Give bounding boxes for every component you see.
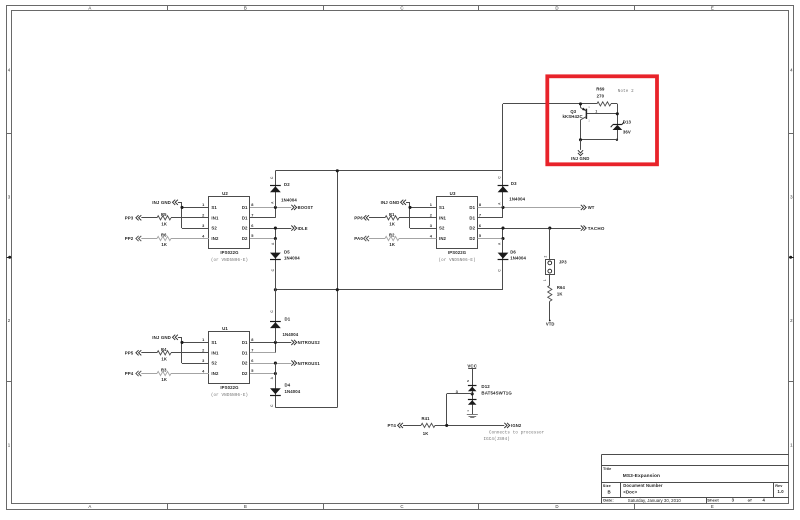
svg-text:R41: R41 <box>421 416 430 421</box>
svg-text:7: 7 <box>479 213 481 218</box>
svg-text:B: B <box>608 490 611 495</box>
svg-text:IGN2: IGN2 <box>511 423 522 428</box>
svg-text:IN1: IN1 <box>211 350 219 355</box>
svg-text:Rev: Rev <box>775 484 783 488</box>
svg-text:(or VND5N06-E): (or VND5N06-E) <box>438 258 475 263</box>
svg-text:S2: S2 <box>211 361 217 366</box>
svg-text:1N4004: 1N4004 <box>281 197 297 202</box>
svg-text:D1: D1 <box>242 215 248 220</box>
svg-text:1K: 1K <box>557 292 563 297</box>
svg-text:IDLE: IDLE <box>298 226 308 231</box>
svg-text:R5: R5 <box>161 212 167 217</box>
svg-text:IN2: IN2 <box>211 371 219 376</box>
svg-text:S2: S2 <box>211 226 217 231</box>
svg-text:Connects to processor: Connects to processor <box>489 431 545 435</box>
svg-text:1K: 1K <box>161 357 167 362</box>
svg-text:1K: 1K <box>389 222 395 227</box>
svg-text:1K: 1K <box>161 242 167 247</box>
svg-text:S1: S1 <box>439 205 445 210</box>
svg-text:IN1: IN1 <box>211 215 219 220</box>
svg-text:IN1: IN1 <box>439 215 447 220</box>
svg-text:of: of <box>748 498 753 503</box>
svg-text:1N4004: 1N4004 <box>509 197 525 202</box>
svg-text:1K: 1K <box>423 431 429 436</box>
svg-text:IN2: IN2 <box>439 236 447 241</box>
svg-text:1N4004: 1N4004 <box>285 389 301 394</box>
svg-text:Date:: Date: <box>603 498 614 503</box>
svg-text:R6: R6 <box>161 233 167 238</box>
svg-text:C: C <box>400 6 403 11</box>
svg-text:PT4: PT4 <box>388 423 397 428</box>
svg-text:IPS022G: IPS022G <box>448 250 467 255</box>
svg-text:R3: R3 <box>161 368 167 373</box>
svg-text:C: C <box>400 504 403 509</box>
svg-text:U3: U3 <box>450 191 456 196</box>
svg-text:Size: Size <box>603 484 611 488</box>
svg-text:D: D <box>555 6 558 11</box>
svg-text:BAT54SWT1G: BAT54SWT1G <box>481 391 512 396</box>
svg-text:A: A <box>88 504 91 509</box>
svg-text:D13: D13 <box>623 119 632 124</box>
svg-text:1N4004: 1N4004 <box>284 256 300 261</box>
svg-text:IN2: IN2 <box>211 236 219 241</box>
svg-text:7: 7 <box>251 348 253 353</box>
svg-text:B: B <box>244 504 247 509</box>
svg-text:(or VND5N06-E): (or VND5N06-E) <box>211 393 248 398</box>
svg-text:PP2: PP2 <box>125 236 134 241</box>
svg-text:1.0: 1.0 <box>778 489 785 494</box>
svg-text:WT: WT <box>588 205 595 210</box>
svg-text:PP4: PP4 <box>125 371 134 376</box>
svg-text:1: 1 <box>595 109 597 113</box>
svg-text:INJ GND: INJ GND <box>152 335 171 340</box>
svg-text:JP3: JP3 <box>559 260 567 265</box>
svg-text:R2: R2 <box>389 233 395 238</box>
svg-text:INJ GND: INJ GND <box>571 156 589 161</box>
svg-text:D4: D4 <box>285 382 291 387</box>
svg-text:D1: D1 <box>242 205 248 210</box>
svg-text:D2: D2 <box>284 182 290 187</box>
svg-text:MS3-Expansion: MS3-Expansion <box>623 473 660 479</box>
svg-text:36V: 36V <box>623 130 631 135</box>
svg-text:270: 270 <box>597 94 605 99</box>
svg-text:A: A <box>88 6 91 11</box>
svg-text:S2: S2 <box>439 226 445 231</box>
svg-text:PP5: PP5 <box>125 351 134 356</box>
svg-text:PP6: PP6 <box>354 216 363 221</box>
svg-text:<Doc>: <Doc> <box>623 490 637 495</box>
svg-text:D2: D2 <box>242 371 248 376</box>
svg-text:VTD: VTD <box>546 321 555 326</box>
svg-text:1: 1 <box>466 410 470 412</box>
svg-text:NITROUS2: NITROUS2 <box>298 340 321 345</box>
svg-text:IGC4(JS04): IGC4(JS04) <box>484 437 510 442</box>
svg-text:INJ GND: INJ GND <box>381 200 400 205</box>
svg-text:D1: D1 <box>242 340 248 345</box>
svg-text:E: E <box>711 504 714 509</box>
svg-text:D2: D2 <box>242 361 248 366</box>
svg-text:1N4004: 1N4004 <box>283 332 299 337</box>
svg-text:D3: D3 <box>511 181 517 186</box>
svg-text:VCC: VCC <box>467 363 477 368</box>
svg-text:E: E <box>711 6 714 11</box>
svg-text:S1: S1 <box>211 205 217 210</box>
svg-text:Title: Title <box>603 467 611 471</box>
svg-text:1: 1 <box>543 279 547 281</box>
svg-text:1N4004: 1N4004 <box>510 256 526 261</box>
svg-text:IPS022G: IPS022G <box>220 385 239 390</box>
svg-text:B: B <box>244 6 247 11</box>
svg-text:R1: R1 <box>389 212 395 217</box>
svg-text:N: N <box>466 380 470 382</box>
svg-text:D12: D12 <box>481 384 490 389</box>
svg-text:U2: U2 <box>222 191 228 196</box>
svg-text:BOOST: BOOST <box>298 205 314 210</box>
svg-text:D1: D1 <box>242 350 248 355</box>
svg-text:PA0: PA0 <box>354 236 363 241</box>
svg-text:D2: D2 <box>242 236 248 241</box>
svg-text:2: 2 <box>544 256 548 258</box>
svg-text:D1: D1 <box>469 205 475 210</box>
svg-text:1K: 1K <box>161 222 167 227</box>
svg-text:7: 7 <box>251 213 253 218</box>
svg-text:Saturday, January 30, 2010: Saturday, January 30, 2010 <box>628 498 682 503</box>
svg-text:D2: D2 <box>242 226 248 231</box>
svg-text:D2: D2 <box>469 236 475 241</box>
svg-text:R69: R69 <box>596 87 605 92</box>
svg-text:D5: D5 <box>284 250 290 255</box>
svg-text:TACHO: TACHO <box>588 226 605 231</box>
svg-text:PP3: PP3 <box>125 216 134 221</box>
svg-text:S1: S1 <box>211 340 217 345</box>
svg-text:NITROUS1: NITROUS1 <box>298 361 321 366</box>
svg-text:R64: R64 <box>557 285 566 290</box>
svg-text:D6: D6 <box>510 249 516 254</box>
svg-text:R4: R4 <box>161 347 167 352</box>
svg-text:1K: 1K <box>161 377 167 382</box>
svg-text:Document Number: Document Number <box>623 483 663 488</box>
svg-text:Sheet: Sheet <box>707 498 719 503</box>
svg-text:INJ GND: INJ GND <box>152 200 171 205</box>
svg-text:IPS022G: IPS022G <box>220 250 239 255</box>
svg-text:D1: D1 <box>285 316 291 321</box>
svg-text:D2: D2 <box>469 226 475 231</box>
svg-text:D: D <box>555 504 558 509</box>
svg-text:(or VND5N06-E): (or VND5N06-E) <box>211 258 248 263</box>
svg-text:D1: D1 <box>469 215 475 220</box>
svg-text:1K: 1K <box>389 242 395 247</box>
svg-text:U1: U1 <box>222 326 228 331</box>
svg-text:Note 2: Note 2 <box>618 90 634 94</box>
svg-text:kKSH42C: kKSH42C <box>563 114 583 119</box>
